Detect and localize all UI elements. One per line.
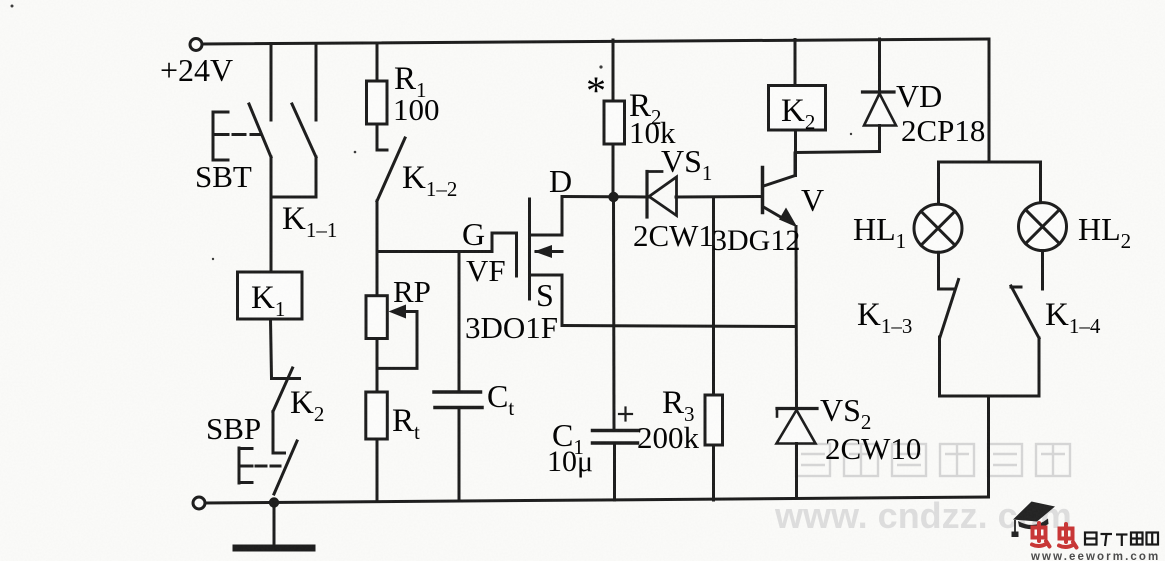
wire Rt to bottom rail [376, 439, 379, 501]
wire R1 branch from rail [376, 44, 379, 82]
capacitor C1 [593, 431, 638, 444]
wire HL1 to K1-3 [937, 252, 940, 289]
wire top rail [202, 39, 989, 44]
mosfet VF body arrow stub [534, 245, 562, 258]
pushbutton SBP blade [274, 441, 297, 494]
wire source lead down [561, 275, 564, 326]
wire C1 top lead [612, 197, 616, 431]
transistor V base bar [761, 168, 765, 213]
potentiometer RP wiper arrow [389, 305, 418, 319]
resistor R3 [705, 395, 723, 445]
wire R2 branch from rail [612, 40, 615, 101]
mosfet VF drain stub [530, 234, 563, 237]
wire lamps return drop [987, 396, 990, 497]
pushbutton SBP fixed contact tick [273, 452, 285, 455]
resistor R2 [604, 101, 625, 144]
potentiometer RP body [366, 296, 387, 339]
zener VS2 [777, 409, 818, 444]
wire collector node to VD anode [796, 152, 880, 153]
switch K1-2 blade [377, 138, 405, 201]
wire R3 branch from base node [712, 197, 715, 395]
node bottom-left terminal [193, 497, 205, 509]
relay coil K1 box [238, 272, 303, 319]
wire lamp footer bar [940, 395, 1040, 398]
wire K1-2 to gate node [376, 201, 379, 296]
wire VD anode lead [878, 126, 881, 152]
wire RP wiper return [377, 312, 417, 369]
zener VS1 [647, 172, 677, 218]
ground [236, 503, 312, 548]
transistor V collector [764, 153, 796, 186]
wire VS1 to base of V [676, 195, 762, 199]
capacitor C1 polarity plus [619, 408, 632, 421]
switch K1-4 blade [1011, 286, 1039, 338]
wire gate jog of VF [492, 233, 517, 252]
switch SBT blade [249, 104, 271, 157]
logo chongchong red characters [1032, 523, 1077, 548]
wire R3 to bottom rail [712, 445, 715, 500]
switch K1-3 blade [940, 280, 959, 338]
wire R1 to K1-2 [376, 124, 379, 150]
logo graduation cap [1012, 502, 1056, 538]
resistor Rt [366, 392, 388, 439]
wire S node horizontal [562, 326, 796, 327]
watermark site name [796, 444, 1070, 476]
wire K1-1 join bar [271, 196, 316, 199]
wire K1-4 lower [1038, 338, 1041, 396]
wire emitter lead down [795, 227, 799, 409]
wire VS2 to bottom rail [795, 444, 798, 499]
pushbutton SBT actuator bracket [213, 112, 260, 160]
wire K2 coil bottom lead [794, 130, 797, 176]
wire R2 to D node [612, 144, 615, 197]
wire RP to Rt [376, 339, 379, 393]
wire C1 to bottom rail [613, 443, 616, 500]
switch K2 fixed contact tick [272, 377, 300, 380]
transistor V emitter with arrow [764, 207, 798, 228]
lamp HL1 [914, 204, 962, 252]
logo site text [1085, 533, 1158, 547]
wire top-right drop [988, 39, 991, 162]
junction D node dot [608, 192, 618, 202]
wire HL2 drop [1039, 162, 1042, 203]
mosfet VF gate bar [515, 233, 518, 276]
switch K1-2 fixed contact tick [377, 149, 387, 152]
junction ground node dot [269, 497, 279, 507]
pushbutton SBP actuator bracket [239, 448, 280, 483]
mosfet VF channel bar [528, 199, 531, 299]
lamp HL2 [1019, 203, 1067, 251]
wire gate node horizontal [377, 250, 492, 253]
wire K1-1 branch from rail [315, 44, 318, 121]
switch K1-3 fixed tick [939, 288, 954, 291]
wire K1-1 lower [315, 157, 318, 197]
mosfet VF source stub [530, 274, 563, 277]
switch K1-4 fixed tick [1011, 286, 1021, 289]
wire drain lead up [561, 197, 564, 236]
diode VD [863, 92, 897, 126]
wire SBT to K1 coil [270, 157, 273, 272]
wire K1-3 lower [938, 337, 941, 396]
wire Ct top lead [458, 252, 461, 393]
wire D node to VS1 [562, 195, 648, 199]
wire K2 to SBP [272, 412, 275, 454]
wire lamp header bar [939, 161, 1041, 164]
wire Ct to bottom rail [458, 408, 461, 501]
wire HL1 drop [937, 162, 940, 205]
switch K1-1 blade [292, 104, 316, 157]
capacitor Ct [434, 392, 482, 408]
wire bottom rail [205, 497, 988, 503]
wire SBT branch from rail [270, 44, 273, 121]
node +24V terminal [190, 39, 202, 51]
wire K1 to K2 contact [271, 319, 272, 379]
resistor R1 [367, 81, 388, 124]
wire VD top lead [878, 39, 881, 92]
relay coil K2 box [769, 86, 826, 131]
wire HL2 to K1-4 [1041, 251, 1044, 289]
scan specks [11, 5, 853, 261]
scan noise overlay [0, 0, 1, 1]
wire K2 coil top lead [794, 40, 797, 86]
switch K2 blade [273, 368, 293, 412]
